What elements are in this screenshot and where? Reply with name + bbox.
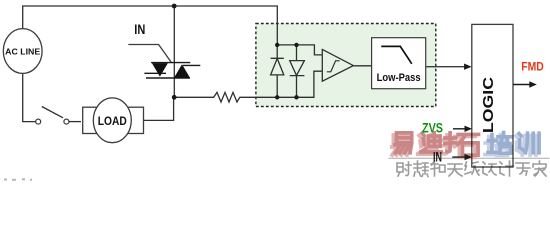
svg-text:IN: IN (433, 148, 442, 164)
svg-text:AC LINE: AC LINE (5, 47, 40, 57)
svg-text:LOAD: LOAD (98, 116, 127, 128)
svg-text:FMD: FMD (521, 61, 544, 73)
svg-text:IN: IN (134, 21, 145, 37)
svg-text:ZVS: ZVS (422, 120, 443, 135)
svg-text:Low-Pass: Low-Pass (377, 72, 421, 84)
svg-text:LOGIC: LOGIC (481, 76, 497, 133)
